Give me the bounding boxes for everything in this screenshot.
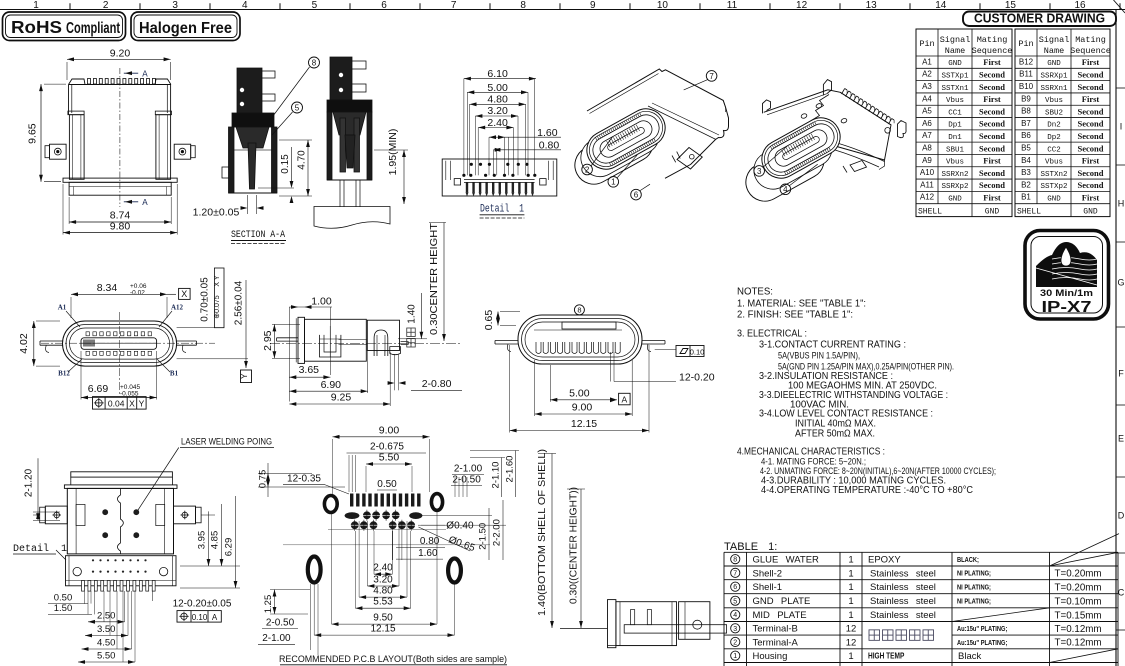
svg-text:2: 2 [733,639,737,646]
svg-text:10: 10 [657,0,669,11]
svg-text:B12: B12 [1019,57,1034,66]
svg-text:SSRXp1: SSRXp1 [1040,72,1068,80]
svg-text:A2: A2 [922,70,932,79]
svg-text:2-1.10: 2-1.10 [491,462,502,489]
svg-text:2.56±0.04: 2.56±0.04 [234,280,245,325]
svg-text:First: First [983,193,1001,203]
svg-text:GND PLATE: GND PLATE [753,596,811,607]
svg-text:5: 5 [312,0,318,11]
svg-text:A12: A12 [171,304,184,312]
svg-text:Second: Second [1078,131,1104,141]
svg-text:Shell-2: Shell-2 [753,568,783,579]
svg-text:B1: B1 [170,370,179,378]
svg-text:1.20±0.05: 1.20±0.05 [193,207,240,219]
svg-text:12: 12 [846,624,857,635]
svg-text:3.20: 3.20 [373,575,393,586]
svg-text:4.80: 4.80 [487,94,508,106]
svg-text:Y: Y [240,373,249,379]
svg-text:Second: Second [1078,143,1104,153]
svg-text:B6: B6 [1021,131,1031,140]
svg-text:9: 9 [590,0,596,11]
svg-text:B8: B8 [1021,107,1031,116]
svg-text:Second: Second [979,119,1005,129]
svg-text:B5: B5 [1021,144,1031,153]
svg-text:1.95(MIN): 1.95(MIN) [387,129,399,176]
svg-text:12.15: 12.15 [571,418,597,430]
svg-text:9.50: 9.50 [373,613,393,624]
svg-text:GND: GND [985,208,1000,217]
svg-text:T=0.12mm: T=0.12mm [1055,638,1102,649]
svg-text:Signal: Signal [1039,35,1070,45]
svg-text:First: First [983,57,1001,67]
svg-text:2-1.00: 2-1.00 [454,463,483,474]
svg-text:3.65: 3.65 [299,364,320,376]
svg-text:Second: Second [1078,82,1104,92]
svg-text:A: A [212,613,218,622]
svg-text:Second: Second [979,180,1005,190]
svg-text:0.15: 0.15 [280,154,291,174]
svg-text:2.50: 2.50 [97,610,116,621]
svg-text:3: 3 [733,626,737,633]
svg-text:4.85: 4.85 [210,531,221,550]
svg-text:B12: B12 [58,370,70,378]
svg-text:1: 1 [611,178,616,187]
svg-text:B10: B10 [1019,82,1034,91]
svg-text:3: 3 [757,167,762,176]
svg-text:NI PLATING;: NI PLATING; [957,584,991,592]
svg-text:T=0.10mm: T=0.10mm [1055,596,1102,607]
svg-text:Stainless steel: Stainless steel [870,568,936,579]
svg-text:1: 1 [848,596,853,607]
svg-text:Housing: Housing [753,651,788,662]
svg-text:B7: B7 [1021,119,1031,128]
svg-text:Au:15u" PLATING;: Au:15u" PLATING; [957,639,1007,647]
svg-text:8: 8 [577,306,581,315]
svg-text:0.30CENTER HEIGHT: 0.30CENTER HEIGHT [429,223,440,335]
svg-text:6.90: 6.90 [321,379,342,391]
svg-text:6.69: 6.69 [88,383,109,395]
svg-text:GND: GND [1047,60,1061,68]
svg-text:CC1: CC1 [948,109,962,117]
svg-text:Second: Second [979,82,1005,92]
svg-text:Name: Name [945,46,965,56]
svg-text:GLUE WATER: GLUE WATER [753,555,820,566]
svg-text:A6: A6 [922,119,932,128]
svg-text:2-0.50: 2-0.50 [266,617,295,628]
svg-text:Second: Second [979,131,1005,141]
svg-text:Dn2: Dn2 [1047,122,1061,130]
svg-text:5A(VBUS PIN 1.5A/PIN),: 5A(VBUS PIN 1.5A/PIN), [778,351,860,362]
svg-text:12-0.20±0.05: 12-0.20±0.05 [173,598,232,609]
svg-text:GND: GND [948,196,962,204]
svg-text:3-3.DIEELECTRIC WITHSTANDING V: 3-3.DIEELECTRIC WITHSTANDING VOLTAGE : [759,390,948,401]
svg-text:4.80: 4.80 [373,586,393,597]
svg-text:3-1.CONTACT CURRENT RATING :: 3-1.CONTACT CURRENT RATING : [759,340,906,351]
svg-text:1: 1 [848,651,853,662]
svg-text:H: H [1118,199,1125,209]
svg-text:4: 4 [783,185,788,194]
svg-text:B1: B1 [1021,193,1031,202]
svg-text:A1: A1 [58,304,67,312]
svg-text:Mating: Mating [977,35,1008,45]
svg-text:EPOXY: EPOXY [868,555,901,566]
svg-text:SECTION A-A: SECTION A-A [231,229,286,241]
svg-text:A7: A7 [922,131,932,140]
svg-text:12: 12 [796,0,808,11]
svg-text:2.40: 2.40 [487,117,508,129]
svg-text:T=0.20mm: T=0.20mm [1055,582,1102,593]
svg-text:A4: A4 [922,94,932,103]
svg-text:2.40: 2.40 [373,563,393,574]
svg-text:First: First [983,94,1001,104]
svg-text:F: F [1118,369,1124,379]
svg-text:X: X [181,289,187,299]
svg-text:Vbus: Vbus [1045,159,1063,167]
svg-text:12: 12 [846,637,857,648]
svg-text:A1: A1 [922,57,932,66]
svg-text:8: 8 [733,557,737,564]
svg-text:Au:15u" PLATING;: Au:15u" PLATING; [957,626,1007,634]
svg-text:Terminal-A: Terminal-A [753,637,799,648]
svg-text:16: 16 [1074,0,1086,11]
svg-text:15: 15 [1005,0,1017,11]
svg-text:7: 7 [451,0,457,11]
svg-text:LASER WELDING POING: LASER WELDING POING [181,437,272,448]
svg-text:1.25: 1.25 [263,595,274,614]
svg-text:4: 4 [733,612,737,619]
svg-text:Halogen Free: Halogen Free [139,20,232,37]
svg-text:First: First [983,156,1001,166]
svg-text:6: 6 [381,0,387,11]
svg-text:2-1.20: 2-1.20 [24,468,35,497]
svg-text:0.04: 0.04 [108,399,125,409]
svg-text:Dn1: Dn1 [948,134,962,142]
svg-text:SSTXp1: SSTXp1 [941,72,969,80]
svg-text:SHELL: SHELL [1017,208,1041,217]
svg-text:Stainless steel: Stainless steel [870,610,936,621]
svg-text:Sequence: Sequence [972,46,1013,56]
svg-text:Name: Name [1044,46,1064,56]
svg-text:Second: Second [979,69,1005,79]
svg-text:Shell-1: Shell-1 [753,582,783,593]
svg-text:Second: Second [1078,106,1104,116]
svg-text:BLACK;: BLACK; [957,556,979,564]
svg-text:1.40: 1.40 [407,304,418,324]
svg-text:2. FINISH: SEE "TABLE 1":: 2. FINISH: SEE "TABLE 1": [737,310,853,321]
svg-text:0.10: 0.10 [192,613,208,622]
svg-text:Pin: Pin [919,39,934,49]
svg-text:1: 1 [848,582,853,593]
svg-text:5.00: 5.00 [569,387,590,399]
svg-text:Dp1: Dp1 [948,122,962,130]
svg-text:B2: B2 [1021,180,1031,189]
svg-text:RECOMMENDED P.C.B LAYOUT(Both: RECOMMENDED P.C.B LAYOUT(Both sides are … [279,654,507,665]
svg-text:A12: A12 [920,193,935,202]
svg-text:0.50: 0.50 [54,592,73,603]
svg-text:13: 13 [866,0,878,11]
svg-text:T=0.12mm: T=0.12mm [1055,624,1102,635]
svg-text:I: I [1120,122,1123,132]
svg-text:GND: GND [1047,196,1061,204]
svg-text:3.50: 3.50 [97,624,116,635]
svg-text:3.20: 3.20 [487,105,508,117]
svg-text:SSTXn2: SSTXn2 [1040,171,1067,179]
svg-text:Pin: Pin [1018,39,1033,49]
svg-text:GND: GND [1083,208,1098,217]
svg-text:GND: GND [948,60,962,68]
svg-text:A9: A9 [922,156,932,165]
svg-text:Black: Black [958,651,981,662]
svg-text:1: 1 [33,0,39,11]
svg-text:SSRXn1: SSRXn1 [1040,85,1068,93]
svg-text:2-1.60: 2-1.60 [505,456,516,483]
svg-text:3.95: 3.95 [197,531,208,550]
svg-text:B4: B4 [1021,156,1031,165]
svg-text:A11: A11 [920,180,934,189]
svg-text:1: 1 [733,653,737,660]
svg-text:Signal: Signal [940,35,971,45]
svg-text:4.50: 4.50 [97,638,116,649]
svg-text:6.29: 6.29 [224,538,235,557]
svg-text:2-0.80: 2-0.80 [422,378,452,390]
svg-text:CUSTOMER DRAWING: CUSTOMER DRAWING [974,12,1105,26]
svg-text:B11: B11 [1019,70,1033,79]
svg-text:A: A [142,70,148,80]
svg-text:7: 7 [733,570,737,577]
svg-text:9.20: 9.20 [110,48,131,60]
svg-text:SSRXp2: SSRXp2 [941,183,968,191]
svg-text:Second: Second [979,106,1005,116]
svg-text:9.25: 9.25 [331,391,352,403]
svg-text:Second: Second [979,168,1005,178]
svg-text:NI PLATING;: NI PLATING; [957,570,991,578]
svg-text:1.40(BOTTOM SHELL OF SHELL): 1.40(BOTTOM SHELL OF SHELL) [537,449,548,616]
svg-text:MID PLATE: MID PLATE [753,610,807,621]
svg-text:Mating: Mating [1075,35,1106,45]
svg-text:T=0.20mm: T=0.20mm [1055,568,1102,579]
svg-text:3. ELECTRICAL :: 3. ELECTRICAL : [737,329,807,340]
svg-text:30 Min/1m: 30 Min/1m [1040,288,1093,299]
svg-text:Second: Second [1078,69,1104,79]
svg-text:0.10: 0.10 [690,348,705,357]
svg-text:AFTER 50mΩ MAX.: AFTER 50mΩ MAX. [795,429,875,440]
svg-text:Second: Second [1078,119,1104,129]
svg-text:Stainless steel: Stainless steel [870,596,936,607]
svg-text:2.95: 2.95 [262,330,274,351]
svg-text:1: 1 [848,568,853,579]
svg-text:NI PLATING;: NI PLATING; [957,598,991,606]
svg-text:5.50: 5.50 [379,452,400,464]
svg-text:Sequence: Sequence [1070,46,1111,56]
svg-text:1. MATERIAL: SEE "TABLE 1":: 1. MATERIAL: SEE "TABLE 1": [737,299,866,310]
svg-text:3: 3 [172,0,178,11]
svg-text:SBU1: SBU1 [946,146,965,154]
svg-text:6: 6 [733,584,737,591]
svg-text:-0.02: -0.02 [130,290,145,297]
svg-text:A5: A5 [922,107,932,116]
svg-text:A10: A10 [920,168,935,177]
svg-text:A: A [621,394,627,404]
svg-text:Terminal-B: Terminal-B [753,624,798,635]
svg-text:9.65: 9.65 [27,123,39,144]
svg-text:12.15: 12.15 [370,624,395,635]
svg-text:Detail 1: Detail 1 [480,204,524,216]
svg-text:2-1.50: 2-1.50 [478,523,489,550]
svg-text:0.65: 0.65 [483,310,495,331]
svg-text:B3: B3 [1021,168,1031,177]
svg-text:2-2.00: 2-2.00 [492,519,503,546]
svg-text:4.70: 4.70 [297,150,308,170]
svg-text:6.10: 6.10 [487,68,508,80]
svg-text:D: D [1118,511,1125,521]
svg-text:1: 1 [848,610,853,621]
svg-text:SSTXn1: SSTXn1 [941,85,969,93]
svg-text:Second: Second [1078,168,1104,178]
svg-text:Vbus: Vbus [946,97,964,105]
svg-text:⊕0.075: ⊕0.075 [214,295,221,318]
svg-text:SBU2: SBU2 [1045,109,1063,117]
svg-text:Second: Second [979,143,1005,153]
svg-text:8.34: 8.34 [97,282,118,294]
svg-text:First: First [1082,57,1100,67]
svg-text:8: 8 [520,0,526,11]
svg-text:G: G [1117,278,1124,288]
svg-text:6: 6 [634,190,639,199]
svg-text:Vbus: Vbus [946,159,964,167]
svg-text:A8: A8 [922,144,932,153]
svg-text:1.00: 1.00 [311,295,332,307]
svg-text:Vbus: Vbus [1045,97,1063,105]
svg-text:4.02: 4.02 [18,333,30,354]
svg-text:7: 7 [709,72,714,81]
svg-text:1: 1 [848,555,853,566]
svg-text:9.00: 9.00 [572,402,593,414]
svg-text:C: C [1118,588,1125,598]
svg-text:NOTES:: NOTES: [737,287,773,298]
svg-text:A: A [142,198,148,208]
svg-text:12-0.20: 12-0.20 [679,372,715,384]
svg-text:X: X [129,399,135,409]
svg-text:E: E [1118,434,1124,444]
svg-text:4-4.OPERATING TEMPERATURE :-40: 4-4.OPERATING TEMPERATURE :-40°C TO +80°… [761,485,973,496]
svg-text:Compliant: Compliant [66,20,120,37]
svg-text:A3: A3 [922,82,932,91]
svg-text:5.53: 5.53 [373,597,393,608]
svg-text:T=0.15mm: T=0.15mm [1055,610,1102,621]
svg-text:2: 2 [585,165,590,174]
svg-text:5.50: 5.50 [97,651,116,662]
svg-text:1.60: 1.60 [418,548,438,559]
svg-text:14: 14 [935,0,947,11]
svg-text:First: First [1082,156,1100,166]
svg-text:SSRXn2: SSRXn2 [941,171,968,179]
svg-text:0.30((CENTER HEIGHT)): 0.30((CENTER HEIGHT)) [569,487,580,604]
svg-text:First: First [1082,94,1100,104]
svg-text:4: 4 [242,0,248,11]
svg-text:SHELL: SHELL [918,208,942,217]
svg-text:1.50: 1.50 [54,603,73,614]
svg-text:0.50: 0.50 [377,479,397,490]
svg-text:First: First [1082,193,1100,203]
svg-text:TABLE 1:: TABLE 1: [724,541,777,553]
svg-text:8: 8 [312,58,317,67]
svg-text:9.00: 9.00 [379,424,400,436]
svg-text:0.70±0.05: 0.70±0.05 [200,277,211,322]
svg-text:2: 2 [103,0,109,11]
svg-text:Dp2: Dp2 [1047,134,1061,142]
svg-text:12-0.35: 12-0.35 [287,473,321,484]
svg-text:5: 5 [733,598,737,605]
svg-text:SSTXp2: SSTXp2 [1040,183,1067,191]
svg-text:CC2: CC2 [1047,146,1061,154]
svg-text:11: 11 [727,0,738,11]
svg-text:HIGH TEMP: HIGH TEMP [868,651,904,661]
svg-text:B9: B9 [1021,94,1031,103]
svg-text:Y: Y [139,399,145,409]
svg-text:Stainless steel: Stainless steel [870,582,936,593]
svg-text:9.80: 9.80 [110,220,131,232]
svg-text:2-1.00: 2-1.00 [262,633,291,644]
svg-text:5: 5 [295,103,300,112]
svg-text:Second: Second [1078,180,1104,190]
svg-text:RoHS: RoHS [11,17,62,37]
svg-text:X Y: X Y [214,275,221,286]
svg-text:IP-X7: IP-X7 [1042,299,1092,316]
svg-text:Ø0.40: Ø0.40 [446,520,474,531]
